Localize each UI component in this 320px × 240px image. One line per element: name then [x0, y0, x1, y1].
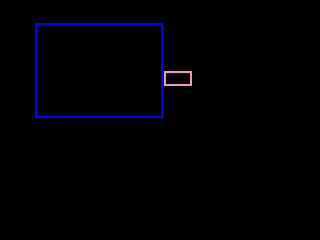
pin box (pink rectangle outline) [164, 71, 192, 86]
component body (blue rectangle outline) [35, 23, 163, 118]
